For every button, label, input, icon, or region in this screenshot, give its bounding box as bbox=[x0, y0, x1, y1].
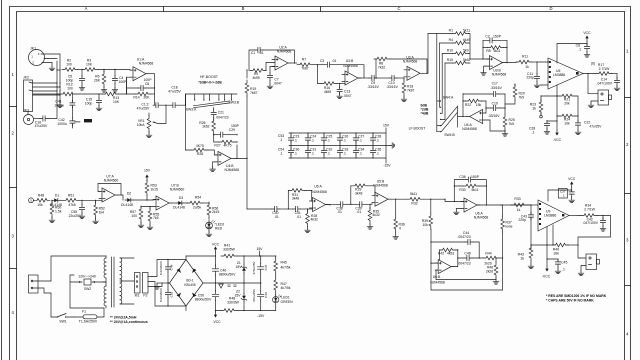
svg-text:NJM4568: NJM4568 bbox=[225, 168, 240, 172]
power -VCC psu bbox=[212, 311, 221, 325]
svg-text:.01: .01 bbox=[259, 51, 264, 55]
svg-text:R11: R11 bbox=[522, 55, 528, 59]
capacitor C1 feedback bbox=[249, 47, 295, 70]
svg-text:T1.6A/250V: T1.6A/250V bbox=[79, 320, 98, 324]
switch SW3 contacts bbox=[186, 94, 238, 105]
resistor R2 bbox=[62, 59, 78, 72]
decoupling bank rails bbox=[289, 124, 395, 168]
svg-text:C29: C29 bbox=[229, 128, 235, 132]
svg-text:.1: .1 bbox=[359, 152, 362, 156]
resistor bbox=[60, 92, 76, 96]
svg-text:4k32: 4k32 bbox=[372, 213, 379, 217]
resistor bbox=[219, 140, 235, 144]
svg-text:.1: .1 bbox=[376, 139, 379, 143]
svg-text:.1: .1 bbox=[327, 139, 330, 143]
diode D2 bbox=[118, 192, 150, 207]
svg-text:7k5: 7k5 bbox=[519, 95, 525, 99]
resistor R3 bbox=[82, 59, 98, 72]
svg-text:3k48: 3k48 bbox=[292, 197, 299, 201]
svg-text:NJM4568: NJM4568 bbox=[474, 215, 489, 219]
svg-text:SW3:B: SW3:B bbox=[229, 100, 240, 104]
svg-text:JK1: JK1 bbox=[30, 47, 36, 51]
capacitor C48 bbox=[457, 252, 483, 266]
resistor R23 bbox=[530, 95, 557, 117]
svg-text:R27: R27 bbox=[214, 144, 220, 148]
svg-text:R15: R15 bbox=[447, 58, 453, 62]
connector JK2 bbox=[23, 76, 60, 115]
op-amp U4:B bbox=[210, 145, 248, 172]
svg-text:NJM4568: NJM4568 bbox=[373, 184, 388, 188]
resistor R24 bbox=[559, 114, 575, 125]
capacitor C43 bbox=[518, 204, 533, 222]
wire U5B out bbox=[388, 198, 407, 200]
svg-text:47u/25V: 47u/25V bbox=[168, 89, 181, 93]
capacitor C11 bbox=[526, 61, 539, 87]
wire bus x247 bbox=[246, 96, 248, 209]
svg-text:15k: 15k bbox=[476, 103, 482, 107]
op-amp U4:A bbox=[462, 110, 505, 132]
labels 0dB 2dB 4dB bbox=[421, 104, 429, 116]
top band ticks bbox=[163, 7, 165, 12]
svg-text:.1: .1 bbox=[562, 194, 565, 198]
label -15V psu bbox=[257, 314, 265, 318]
capacitor C7 bbox=[267, 66, 282, 88]
svg-text:1.5k: 1.5k bbox=[55, 209, 62, 213]
svg-text:.0047/23: .0047/23 bbox=[457, 261, 470, 265]
svg-text:2k26: 2k26 bbox=[486, 269, 493, 273]
svg-text:.33/16V: .33/16V bbox=[488, 114, 500, 118]
svg-text:10kA: 10kA bbox=[137, 123, 145, 127]
svg-text:C13: C13 bbox=[344, 89, 350, 93]
resistor R53 bbox=[145, 180, 158, 201]
svg-text:330/5W: 330/5W bbox=[223, 248, 235, 252]
svg-text:C1: C1 bbox=[251, 51, 255, 55]
capacitor C22 bbox=[575, 120, 602, 135]
svg-text:SW4:B: SW4:B bbox=[444, 133, 455, 137]
ladder right bus bbox=[469, 34, 471, 64]
speaker terminal JK4 top bbox=[588, 74, 612, 108]
svg-text:.1: .1 bbox=[359, 139, 362, 143]
svg-text:5k11: 5k11 bbox=[471, 188, 478, 192]
wire U3B out caps bbox=[358, 77, 369, 79]
resistor R18 bbox=[401, 78, 414, 102]
psu mid rail right bbox=[244, 282, 261, 284]
feedback network R14 C8 of U1 bbox=[126, 74, 155, 105]
svg-text:5k62: 5k62 bbox=[463, 58, 470, 62]
connector JK3 bbox=[23, 109, 40, 125]
note text 2 bbox=[546, 299, 594, 303]
resistor R19 bbox=[245, 69, 257, 159]
connector PWR bbox=[29, 275, 52, 293]
psu primary wires bbox=[51, 256, 106, 317]
zener Z1 bbox=[235, 256, 246, 284]
svg-text:R28: R28 bbox=[197, 152, 203, 156]
svg-text:R10: R10 bbox=[447, 49, 453, 53]
wire U9 inv bbox=[546, 227, 548, 245]
svg-text:-VCC: -VCC bbox=[553, 138, 562, 142]
psu mid rail bbox=[203, 282, 244, 288]
svg-text:R1: R1 bbox=[449, 29, 453, 33]
svg-text:4K75: 4K75 bbox=[224, 144, 232, 148]
svg-text:1k: 1k bbox=[525, 65, 529, 69]
svg-text:NJM4560: NJM4560 bbox=[170, 187, 185, 191]
svg-text:NJM4568: NJM4568 bbox=[492, 72, 507, 76]
capacitor C1:2 bbox=[137, 103, 161, 111]
decoupling capacitor C30 bbox=[288, 146, 299, 159]
resistor R1 bbox=[449, 29, 471, 36]
capacitor CX1 bbox=[159, 260, 174, 284]
resistor R43b bbox=[518, 218, 534, 269]
capacitor C16 bbox=[35, 94, 57, 128]
svg-text:D: D bbox=[549, 6, 552, 11]
svg-text:R7: R7 bbox=[302, 58, 306, 62]
svg-text:1k4: 1k4 bbox=[99, 210, 105, 214]
decoupling capacitor C34 bbox=[353, 146, 364, 159]
op-amp U7:B bbox=[150, 184, 184, 211]
wire to R11 bbox=[503, 62, 517, 64]
svg-text:2k15: 2k15 bbox=[212, 210, 219, 214]
svg-text:3k48: 3k48 bbox=[355, 191, 362, 195]
resistor bbox=[63, 199, 79, 203]
svg-text:470u/25V: 470u/25V bbox=[252, 260, 256, 274]
svg-text:8800u/50V: 8800u/50V bbox=[219, 273, 236, 277]
svg-text:.1: .1 bbox=[343, 152, 346, 156]
resistor R55 bbox=[147, 206, 159, 230]
svg-text:P2: P2 bbox=[143, 294, 147, 298]
svg-text:none: none bbox=[505, 224, 513, 228]
svg-text:220p: 220p bbox=[526, 76, 534, 80]
svg-text:VCC: VCC bbox=[583, 31, 591, 35]
capacitor C44 bbox=[430, 231, 479, 259]
input bus wires bbox=[56, 55, 60, 104]
resistor R46 bbox=[436, 257, 499, 284]
svg-text:10K: 10K bbox=[86, 63, 93, 67]
svg-text:R30: R30 bbox=[459, 188, 465, 192]
psu secondary wires bbox=[152, 260, 186, 307]
svg-text:LF BOOST: LF BOOST bbox=[409, 126, 426, 130]
op-amp U3:A bbox=[403, 55, 423, 80]
svg-text:100: 100 bbox=[66, 63, 72, 67]
resistor R26 bbox=[199, 118, 215, 135]
capacitor C8b bbox=[576, 44, 590, 58]
svg-text:8.22/200V: 8.22/200V bbox=[159, 260, 163, 275]
decoupling capacitor C23 bbox=[288, 132, 299, 146]
svg-text:C47: C47 bbox=[264, 264, 268, 270]
svg-text:SW4:A: SW4:A bbox=[443, 95, 454, 99]
op-amp U5 LM3886 top bbox=[540, 44, 596, 97]
capacitor C49 bbox=[252, 283, 268, 311]
svg-text:.01: .01 bbox=[296, 215, 301, 219]
svg-text:VCC: VCC bbox=[568, 177, 576, 181]
transformer T1 secondary bbox=[120, 258, 134, 304]
resistor R45 bbox=[274, 256, 291, 277]
op-amp U1:A bbox=[130, 58, 153, 81]
wire node to U6A bbox=[445, 199, 464, 201]
capacitor C36 feedback bbox=[454, 175, 486, 205]
svg-text:10k: 10k bbox=[37, 203, 43, 207]
resistor R6 bbox=[94, 70, 107, 93]
svg-text:.047/100V: .047/100V bbox=[597, 82, 613, 86]
svg-text:4k32: 4k32 bbox=[311, 218, 318, 222]
svg-text:7k87: 7k87 bbox=[407, 88, 414, 92]
capacitor C15 bbox=[85, 93, 102, 110]
note text bbox=[546, 294, 607, 298]
svg-text:7k32: 7k32 bbox=[378, 66, 385, 70]
svg-text:470u/25V: 470u/25V bbox=[252, 288, 256, 302]
svg-text:100: 100 bbox=[131, 214, 137, 218]
label LF BOOST bbox=[409, 126, 426, 130]
ground JK1 shield bbox=[49, 63, 55, 71]
resistor bbox=[483, 256, 499, 260]
svg-text:1k: 1k bbox=[532, 106, 536, 110]
capacitor C18 bbox=[161, 86, 186, 108]
resistor bbox=[221, 309, 237, 313]
capacitor C28b bbox=[529, 120, 558, 134]
resistor R40 bbox=[530, 243, 578, 255]
op-amp U6:B bbox=[430, 249, 458, 284]
svg-text:C49: C49 bbox=[264, 292, 268, 298]
decoupling capacitor C27 bbox=[353, 132, 364, 146]
svg-text:R33: R33 bbox=[514, 197, 520, 201]
svg-text:.01: .01 bbox=[356, 210, 361, 214]
svg-text:.1: .1 bbox=[311, 152, 314, 156]
svg-text:DL4148: DL4148 bbox=[121, 203, 133, 207]
capacitor C21 bbox=[211, 108, 229, 122]
capacitor C5 bbox=[66, 69, 85, 91]
svg-text:.33/16V: .33/16V bbox=[367, 85, 379, 89]
op-amp U6:A bbox=[454, 198, 532, 219]
psu mid ground bbox=[154, 283, 169, 289]
svg-text:A: A bbox=[85, 6, 88, 11]
svg-text:5k11: 5k11 bbox=[410, 192, 417, 196]
svg-text:R32: R32 bbox=[411, 201, 417, 205]
op-amp U2:A bbox=[272, 46, 291, 71]
LED1 bbox=[273, 295, 294, 311]
svg-text:C2: C2 bbox=[485, 34, 489, 38]
svg-text:U6:B: U6:B bbox=[433, 275, 441, 279]
svg-text:15V: 15V bbox=[234, 294, 241, 298]
resistor R31 feedback bbox=[288, 189, 312, 209]
svg-text:R42: R42 bbox=[438, 252, 444, 256]
resistor R20 bbox=[505, 84, 525, 104]
transformer core bbox=[112, 257, 115, 307]
svg-text:.1: .1 bbox=[562, 268, 565, 272]
resistor bbox=[440, 248, 456, 252]
svg-text:SW3:A: SW3:A bbox=[186, 107, 197, 111]
capacitor C47 bbox=[252, 256, 268, 284]
svg-text:C: C bbox=[397, 6, 400, 11]
svg-text:*2dB<-0->-2dB: *2dB<-0->-2dB bbox=[198, 81, 222, 85]
capacitor C17 bbox=[463, 82, 505, 117]
resistor R35 bbox=[367, 204, 380, 229]
power 15V arrow bbox=[144, 169, 151, 182]
capacitor C46 bbox=[212, 265, 236, 283]
potentiometer VR1 body bbox=[137, 105, 166, 137]
wire switch left riser bbox=[185, 94, 187, 150]
svg-text:4K75: 4K75 bbox=[196, 144, 204, 148]
wire lower input row bbox=[33, 77, 135, 94]
svg-text:C21: C21 bbox=[218, 110, 224, 114]
resistor bbox=[191, 148, 207, 152]
resistor bbox=[463, 184, 479, 188]
svg-text:R48: R48 bbox=[38, 193, 44, 197]
svg-text:C19: C19 bbox=[492, 102, 498, 106]
svg-text:120<-->240: 120<-->240 bbox=[78, 275, 96, 279]
svg-text:KBL405: KBL405 bbox=[184, 283, 196, 287]
svg-text:(6): (6) bbox=[591, 62, 595, 66]
power VCC rail bbox=[186, 242, 220, 265]
zener Z2 bbox=[234, 283, 246, 311]
svg-text:** 24V@2A,5mH: ** 24V@2A,5mH bbox=[110, 316, 137, 320]
svg-text:5k9: 5k9 bbox=[463, 49, 469, 53]
resistor bbox=[516, 60, 532, 64]
svg-text:* RES ARE SMD1206 1% IF NO MAR: * RES ARE SMD1206 1% IF NO MARK bbox=[546, 294, 607, 298]
svg-text:B: B bbox=[242, 6, 245, 11]
diode D3 bbox=[172, 196, 188, 210]
resistor R52 bbox=[93, 200, 105, 223]
wire U1 out bbox=[146, 73, 155, 75]
svg-text:15V: 15V bbox=[256, 247, 263, 251]
resistor R16 bbox=[317, 65, 345, 94]
capacitor CX2 bbox=[159, 282, 174, 306]
capacitor C14 bbox=[597, 74, 620, 91]
svg-text:10k: 10k bbox=[423, 223, 429, 227]
capacitor C41b bbox=[288, 206, 313, 219]
bridge rectifier BD1 bbox=[168, 256, 203, 311]
decoupling capacitor C32 bbox=[321, 146, 332, 159]
svg-text:.1: .1 bbox=[532, 131, 535, 135]
svg-text:R45: R45 bbox=[281, 260, 287, 264]
svg-text:R4: R4 bbox=[449, 38, 453, 42]
svg-text:.1: .1 bbox=[280, 152, 283, 156]
svg-text:4k53: 4k53 bbox=[447, 252, 454, 256]
capacitor C40 bbox=[272, 206, 293, 219]
svg-text:D3: D3 bbox=[179, 196, 183, 200]
capacitor C3 bbox=[313, 59, 364, 78]
svg-text:U3:B: U3:B bbox=[346, 59, 354, 63]
op-amp U5:B bbox=[372, 179, 391, 206]
right band ticks bbox=[625, 97, 631, 99]
svg-text:10K: 10K bbox=[113, 100, 120, 104]
svg-text:.01: .01 bbox=[337, 210, 342, 214]
svg-text:1k62: 1k62 bbox=[202, 125, 209, 129]
svg-text:0: 0 bbox=[399, 226, 401, 230]
svg-text:1000u: 1000u bbox=[57, 122, 67, 126]
svg-text:-VCC: -VCC bbox=[212, 320, 221, 324]
capacitor C19 bbox=[485, 102, 505, 118]
svg-text:330/3W: 330/3W bbox=[227, 301, 239, 305]
svg-text:NJM4568: NJM4568 bbox=[343, 64, 358, 68]
capacitor C42b bbox=[583, 216, 606, 232]
svg-text:SW1: SW1 bbox=[59, 320, 66, 324]
decoupling capacitor C33 bbox=[337, 146, 348, 159]
label net 6 bbox=[591, 62, 595, 66]
resistor R21 bbox=[559, 94, 575, 105]
capacitor C10 bbox=[386, 75, 404, 88]
left band ticks bbox=[10, 106, 17, 108]
svg-text:2u/5k: 2u/5k bbox=[193, 206, 202, 210]
power -VCC small bbox=[553, 130, 562, 142]
decoupling capacitor C25 bbox=[321, 132, 332, 146]
svg-text:VCC: VCC bbox=[212, 242, 220, 246]
svg-text:7k87: 7k87 bbox=[250, 91, 257, 95]
resistor bbox=[488, 46, 504, 50]
svg-text:100p: 100p bbox=[85, 101, 93, 105]
svg-text:C36: C36 bbox=[459, 175, 465, 179]
label +15V psu bbox=[256, 247, 263, 256]
capacitor C9 bbox=[367, 75, 389, 88]
svg-text:F1: F1 bbox=[82, 310, 86, 314]
svg-text:4k99: 4k99 bbox=[252, 76, 259, 80]
svg-text:10k: 10k bbox=[564, 121, 570, 125]
decoupling capacitor C28 bbox=[370, 132, 381, 146]
svg-text:.01: .01 bbox=[274, 215, 279, 219]
op-amp U3:B bbox=[342, 59, 361, 85]
ground input bus bbox=[57, 103, 63, 108]
svg-text:* CAPS ARE 50V IF NO MARK: * CAPS ARE 50V IF NO MARK bbox=[546, 299, 594, 303]
resistor R39 bbox=[422, 199, 433, 229]
svg-text:7k87: 7k87 bbox=[301, 66, 308, 70]
svg-text:C48: C48 bbox=[464, 252, 470, 256]
svg-text:.01: .01 bbox=[332, 59, 337, 63]
svg-text:8.22/200V: 8.22/200V bbox=[159, 287, 163, 302]
svg-text:C45: C45 bbox=[561, 261, 567, 265]
svg-text:D1: D1 bbox=[55, 193, 59, 197]
svg-text:.1: .1 bbox=[311, 139, 314, 143]
capacitor C2 feedback bbox=[483, 34, 507, 62]
svg-text:-15V: -15V bbox=[257, 314, 265, 318]
svg-text:R22: R22 bbox=[465, 103, 471, 107]
svg-text:220p: 220p bbox=[518, 218, 526, 222]
switch SW3 wiper bbox=[186, 100, 240, 111]
LED2 bbox=[206, 220, 225, 237]
svg-text:.1: .1 bbox=[294, 152, 297, 156]
svg-text:26K: 26K bbox=[94, 78, 101, 82]
svg-text:.1: .1 bbox=[327, 152, 330, 156]
capacitor C39 bbox=[355, 202, 375, 215]
resistor bbox=[187, 201, 203, 205]
power VCC U9 bbox=[548, 177, 576, 191]
svg-text:SW2: SW2 bbox=[84, 287, 91, 291]
svg-text:47u/25V: 47u/25V bbox=[35, 124, 48, 128]
connector M1 bbox=[135, 273, 141, 298]
svg-text:1k: 1k bbox=[517, 208, 521, 212]
resistor R57 bbox=[130, 206, 150, 228]
svg-text:4k7/5k: 4k7/5k bbox=[281, 286, 291, 290]
svg-text:M1: M1 bbox=[135, 294, 140, 298]
transformer T1 primary upper bbox=[104, 256, 106, 278]
capacitor C42 electrolytic bbox=[57, 118, 80, 128]
svg-text:20K: 20K bbox=[143, 96, 150, 100]
resistor bbox=[221, 254, 237, 258]
svg-text:-15V: -15V bbox=[383, 164, 391, 168]
capacitor C54 label bbox=[278, 148, 284, 156]
svg-text:DL4148: DL4148 bbox=[173, 206, 185, 210]
svg-text:R44: R44 bbox=[485, 252, 491, 256]
fuse F1 bbox=[74, 308, 104, 324]
ladder left bus bbox=[428, 34, 453, 132]
capacitor C38 bbox=[330, 202, 357, 215]
decoupling capacitor C26 bbox=[337, 132, 348, 146]
svg-text:C48: C48 bbox=[170, 264, 174, 270]
capacitor C50 bbox=[195, 283, 219, 311]
svg-text:.047/100V: .047/100V bbox=[583, 221, 599, 225]
svg-text:R14: R14 bbox=[133, 96, 139, 100]
svg-text:** 24V@1A,continuous: ** 24V@1A,continuous bbox=[110, 320, 148, 324]
svg-text:1000u: 1000u bbox=[54, 104, 64, 108]
resistor R56 bbox=[207, 202, 219, 219]
op-amp U9 LM3886 bbox=[538, 190, 578, 245]
